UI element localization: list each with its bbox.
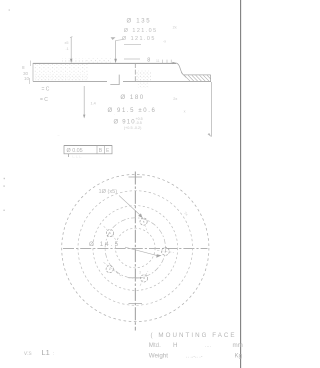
dim leader B vertical (115, 41, 117, 62)
bolt hole 2 top (140, 213, 147, 230)
hatch right band diagonals (181, 73, 210, 82)
left margin dots (4, 178, 5, 179)
svg-text:x5: x5 (65, 41, 69, 45)
svg-text:x: x (184, 110, 186, 114)
svg-text:.1: .1 (66, 47, 69, 51)
top-left dot (9, 9, 10, 10)
dim leader A vertical (70, 38, 72, 63)
svg-text:-0.5: -0.5 (136, 121, 142, 125)
svg-text:= C: = C (40, 97, 48, 103)
svg-text:-x: -x (163, 40, 166, 44)
leader to hole 3 (125, 247, 158, 256)
bore inner edge (134, 63, 136, 81)
border frame right edge (240, 0, 242, 368)
svg-text:3: 3 (139, 270, 141, 274)
svg-text:Ø 910: Ø 910 (114, 119, 136, 125)
leader to hole 2 (119, 196, 140, 216)
dim leader A arrow (70, 59, 72, 63)
hatch below hub (138, 82, 149, 89)
bolt hole 5 bottom (140, 271, 148, 286)
svg-text:Ø 121.05: Ø 121.05 (122, 36, 156, 42)
left edge (32, 63, 34, 81)
svg-text:( MOUNTING FACE: ( MOUNTING FACE (151, 332, 237, 339)
ext line left arrow (83, 115, 85, 119)
circle r57 (78, 191, 193, 306)
feature control frame box (64, 146, 112, 155)
circle r20 (116, 228, 156, 268)
svg-text:10: 10 (24, 76, 30, 81)
svg-text:E: E (106, 148, 110, 154)
chamfer step right (176, 63, 183, 75)
groove line lower (124, 58, 140, 60)
bolt hole 4 lower-left (104, 262, 123, 277)
svg-text:L1: L1 (42, 348, 50, 357)
svg-text:Kg: Kg (235, 352, 243, 359)
svg-text:7x: 7x (183, 211, 189, 217)
quadrant cross ticks (129, 177, 143, 303)
bolt circle r30 (105, 218, 165, 278)
leader arrowhead upleft (111, 37, 116, 40)
ext line right end tick (208, 133, 212, 137)
ext line left below section (83, 86, 85, 118)
bottom face line (33, 80, 107, 82)
dim leader B kink to text (116, 40, 124, 41)
svg-text:8: 8 (22, 65, 25, 70)
svg-text:(+0.5 -0.2): (+0.5 -0.2) (124, 126, 142, 130)
svg-text:11: 11 (156, 59, 160, 63)
chain ticks on top line (162, 60, 164, 64)
vertical centerline (134, 172, 136, 331)
hatch left band (34, 64, 89, 81)
svg-text:Ø 0.05: Ø 0.05 (67, 148, 83, 154)
svg-text:Ø 135: Ø 135 (127, 19, 152, 25)
svg-text:....: .... (205, 343, 211, 349)
svg-text:1Ø (x5): 1Ø (x5) (99, 189, 118, 195)
top surface line (33, 62, 176, 64)
left end tick top (30, 61, 32, 67)
svg-text:∟∟∟: ∟∟∟ (72, 154, 82, 158)
hatch band above top face dense part (86, 58, 112, 63)
bore notch (110, 75, 119, 85)
svg-text:8: 8 (147, 57, 150, 63)
svg-text:v:s: v:s (24, 351, 32, 357)
left end tick bottom (29, 78, 31, 84)
dim leader B arrow (114, 59, 117, 63)
svg-text:Ø 14.5: Ø 14.5 (89, 241, 120, 248)
bolt hole 1 upper-left (104, 226, 117, 240)
svg-text:H: H (173, 342, 177, 349)
horizontal centerline (63, 247, 208, 249)
svg-text:B: B (99, 148, 103, 154)
svg-text:Weight: Weight (149, 352, 168, 359)
svg-text:= C: = C (42, 87, 50, 93)
ext line right below section (210, 82, 212, 137)
hatch band above top face (62, 59, 86, 63)
circle r74 outer (62, 174, 209, 321)
svg-text:mm: mm (233, 342, 243, 349)
right edge (210, 75, 212, 82)
bolt hole 3 right (157, 248, 174, 256)
hatch hub patch (137, 71, 152, 82)
frame leader tick (68, 154, 70, 157)
svg-text:..: .. (58, 133, 60, 137)
circle r42 (93, 206, 178, 291)
svg-text:Ø 180: Ø 180 (120, 94, 144, 101)
svg-text:Ø 91.5 ±0.6: Ø 91.5 ±0.6 (108, 108, 157, 114)
groove line upper (124, 44, 141, 46)
right shelf line (183, 74, 210, 76)
svg-text:1.4: 1.4 (91, 101, 96, 105)
dim leader A top tick (70, 36, 72, 39)
svg-text:Mtd.: Mtd. (149, 342, 161, 349)
svg-text:.. ..-.. .-: .. ..-.. .- (186, 353, 203, 359)
svg-text:2x: 2x (173, 97, 177, 101)
svg-text:2x: 2x (173, 26, 177, 30)
svg-text:Ø 121.05: Ø 121.05 (124, 28, 158, 34)
svg-text::: : (53, 351, 54, 357)
